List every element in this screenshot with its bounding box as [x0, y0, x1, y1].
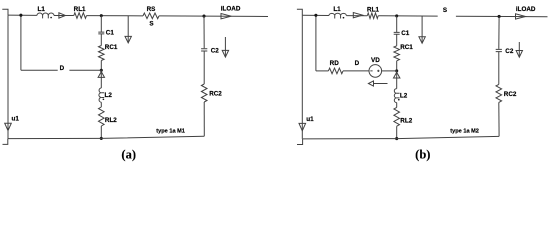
node junction dot top of C1 branch (a)	[100, 14, 103, 17]
wire C1 to RC1 (b)	[396, 34, 398, 46]
wire C2 branch upper (a)	[203, 16, 205, 48]
svg-text:D: D	[60, 65, 65, 72]
wire bottom rail with left step (b)	[297, 136, 499, 144]
svg-text:RC1: RC1	[105, 44, 118, 51]
svg-text:RL2: RL2	[400, 117, 412, 124]
resistor RD (b)	[328, 68, 343, 74]
current arrow down beside C2 (a)	[224, 37, 226, 57]
wire VD to D junction (b)	[382, 70, 397, 72]
svg-text:RC2: RC2	[504, 91, 517, 98]
current flow arrow after L1 (b)	[353, 13, 362, 18]
voltage source VD (b)	[369, 65, 382, 78]
capacitor C1 (a)	[98, 32, 104, 34]
wire C1 branch upper (a)	[100, 16, 102, 32]
current arrow down beside C2 (b)	[518, 42, 520, 57]
svg-text:C2: C2	[211, 48, 220, 55]
wire left vertical u1 branch (b)	[301, 15, 303, 139]
wire D node to RD (b)	[316, 70, 329, 72]
wire input step top-left (b)	[297, 9, 302, 15]
wire D branch vertical (a)	[20, 15, 22, 70]
resistor RL1 (b)	[367, 13, 378, 19]
node junction dot top of C1 branch (b)	[395, 14, 398, 17]
resistor RS (a)	[143, 13, 159, 19]
svg-text:type 1a M2: type 1a M2	[450, 129, 479, 135]
node junction dot top rail / D branch (a)	[19, 14, 22, 17]
node D junction dot (b)	[395, 69, 398, 72]
resistor RC2 (b)	[496, 84, 502, 102]
voltage arrow u1 (b)	[299, 123, 306, 130]
svg-text:u1: u1	[306, 116, 314, 123]
wire RL1 to switch gap (b)	[378, 15, 438, 17]
inductor L1 (b)	[329, 13, 347, 18]
inductor L2 (a)	[99, 88, 104, 102]
svg-text:L1: L1	[333, 6, 341, 13]
wire C1 to RC1 (a)	[100, 34, 102, 46]
resistor RC2 (a)	[201, 84, 207, 102]
capacitor C2 (b)	[496, 49, 502, 51]
svg-text:RL1: RL1	[74, 6, 86, 13]
svg-text:RD: RD	[330, 60, 340, 67]
wire L2 to RL2 (a)	[100, 102, 102, 107]
wire RL1 to RS (a)	[87, 15, 144, 17]
capacitor C2 (a)	[201, 49, 207, 51]
svg-text:RS: RS	[147, 6, 156, 13]
svg-text:L1: L1	[38, 6, 46, 13]
svg-text:iLOAD: iLOAD	[221, 6, 241, 13]
svg-text:C1: C1	[401, 30, 410, 37]
wire bottom rail with left step (a)	[3, 136, 205, 144]
wire D branch vertical (b)	[315, 15, 317, 71]
current arrow down beside RS (a)	[127, 16, 129, 43]
wire C2 branch upper (b)	[498, 16, 500, 48]
svg-text:RL1: RL1	[367, 6, 379, 13]
svg-text:VD: VD	[371, 57, 380, 64]
current arrow down beside switch (b)	[421, 16, 423, 43]
svg-text:C1: C1	[106, 30, 115, 37]
svg-text:u1: u1	[12, 116, 20, 123]
resistor RC1 (b)	[394, 46, 400, 61]
wire switch gap to load branch (b)	[456, 15, 548, 18]
iLOAD output arrow (b)	[516, 14, 526, 19]
wire node D right segment (a)	[69, 69, 101, 71]
wire C2 to RC2 (b)	[498, 52, 500, 85]
wire RC2 to bottom rail corner (a)	[203, 102, 205, 136]
resistor RL1 (a)	[74, 13, 87, 19]
wire left vertical u1 branch (a)	[7, 15, 9, 139]
current arrow up below node D (a)	[100, 70, 102, 88]
wire RC1 to D node (b)	[396, 61, 398, 71]
node junction dot bottom rail (a)	[100, 137, 103, 140]
current flow arrow after L1 (a)	[59, 13, 66, 18]
svg-text:(a): (a)	[121, 148, 136, 162]
svg-text:D: D	[355, 60, 360, 67]
wire top rail left segment (a)	[8, 14, 37, 16]
wire RL2 to bottom rail (b)	[396, 126, 398, 138]
resistor RL2 (a)	[99, 107, 105, 126]
node D junction dot (a)	[100, 69, 103, 72]
wire RL2 to bottom rail (a)	[100, 126, 102, 138]
wire RC2 to bottom rail corner (b)	[498, 102, 500, 136]
wire node D left segment (a)	[21, 69, 58, 71]
iLOAD output arrow (a)	[221, 14, 231, 19]
svg-text:L2: L2	[400, 93, 408, 100]
svg-text:type 1a M1: type 1a M1	[156, 128, 185, 134]
svg-text:S: S	[443, 7, 447, 14]
wire L2 to RL2 (b)	[396, 103, 398, 108]
wire RC1 to D node (a)	[100, 61, 102, 71]
current arrow left below VD (b)	[374, 83, 388, 85]
inductor L2 (b)	[394, 89, 399, 103]
svg-text:S: S	[149, 21, 153, 28]
svg-text:C2: C2	[505, 48, 514, 55]
svg-text:L2: L2	[105, 92, 113, 99]
voltage arrow u1 (a)	[5, 123, 12, 130]
current arrow up below node D (b)	[396, 71, 398, 89]
wire top rail left segment (b)	[302, 14, 329, 16]
svg-text:iLOAD: iLOAD	[516, 6, 536, 13]
wire L1 to arrow (b)	[346, 15, 367, 17]
resistor RC1 (a)	[99, 46, 105, 61]
svg-text:RC2: RC2	[209, 91, 222, 98]
svg-text:RL2: RL2	[105, 117, 117, 124]
node junction dot top of C2 branch (a)	[202, 15, 205, 18]
wire RD to VD source (b)	[343, 70, 369, 72]
node junction dot top rail / D branch (b)	[314, 14, 317, 17]
svg-text:RC1: RC1	[400, 44, 413, 51]
wire C2 to RC2 (a)	[203, 51, 205, 84]
wire L1 to arrow (a)	[54, 14, 74, 16]
node junction dot bottom rail (b)	[395, 137, 398, 140]
node junction dot top of C2 branch (b)	[498, 15, 501, 18]
resistor RL2 (b)	[394, 107, 400, 126]
wire RS to load branch (a)	[159, 15, 268, 18]
inductor L1 (a)	[37, 13, 54, 18]
wire input step top-left (a)	[2, 9, 8, 15]
wire C1 branch upper (b)	[396, 16, 398, 32]
svg-text:(b): (b)	[415, 148, 430, 162]
capacitor C1 (b)	[394, 32, 400, 34]
